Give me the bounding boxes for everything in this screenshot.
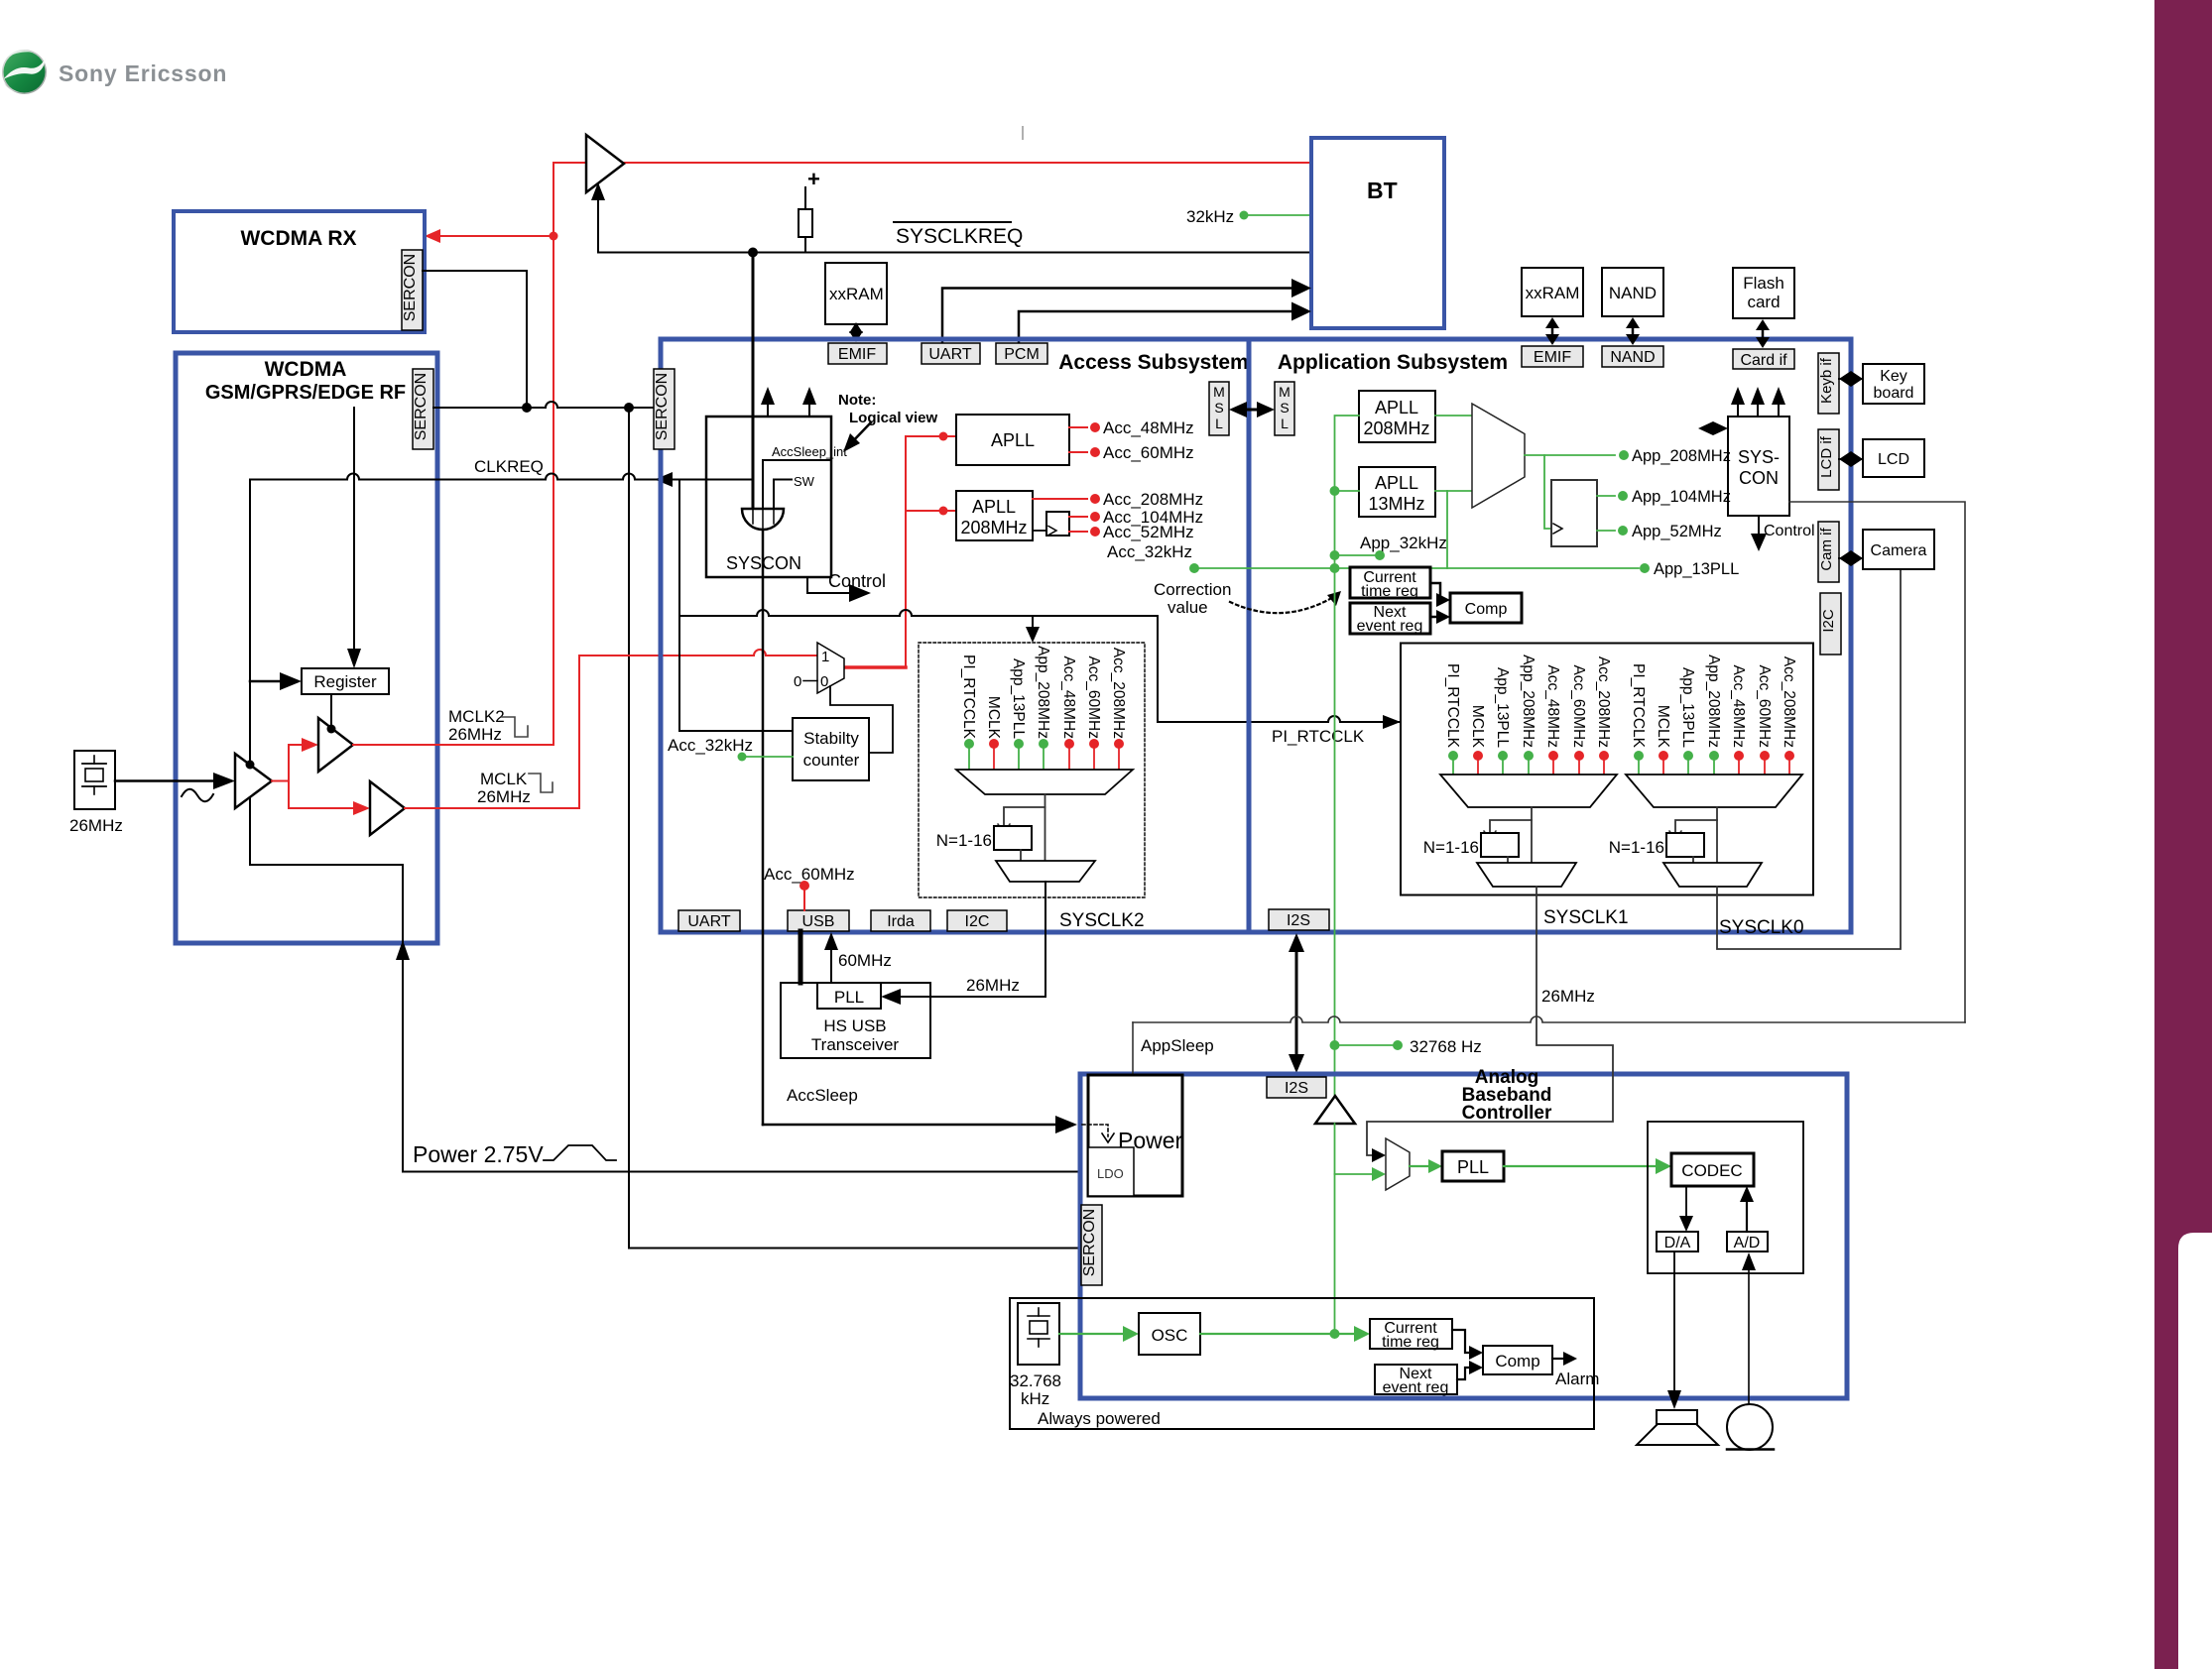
wire gate output down (AccSleep) <box>762 530 765 1125</box>
wire mux1 out <box>1531 807 1533 863</box>
SEC4: Application subsystem <box>1107 268 1965 1097</box>
svg-text:Acc_32kHz: Acc_32kHz <box>1107 542 1192 561</box>
divider FF (app) <box>1551 480 1597 546</box>
svg-text:Acc_208MHz: Acc_208MHz <box>1110 648 1127 739</box>
svg-text:SERCON: SERCON <box>654 373 671 440</box>
divider output stage <box>996 861 1095 882</box>
svg-text:Acc_48MHz: Acc_48MHz <box>1103 418 1194 437</box>
wire CLKREQ branch into stability counter <box>679 480 793 732</box>
block PLL (usb) <box>817 983 881 1009</box>
svg-text:APLL: APLL <box>1375 398 1418 417</box>
svg-text:xxRAM: xxRAM <box>829 285 884 303</box>
port SERCON (WCDMA RX) <box>402 250 423 330</box>
net App_208MHz <box>1525 454 1615 456</box>
block D/A <box>1657 1232 1698 1252</box>
svg-text:LCD if: LCD if <box>1818 435 1835 478</box>
block Access Subsystem <box>661 339 1249 932</box>
mux ABB clock <box>1386 1138 1410 1190</box>
wire current to comp <box>1452 1330 1469 1353</box>
maroon side bar <box>2154 0 2212 1669</box>
svg-text:PCM: PCM <box>1004 346 1040 363</box>
svg-text:SW: SW <box>794 474 815 489</box>
svg-text:App_208MHz: App_208MHz <box>1632 447 1731 465</box>
svg-text:BT: BT <box>1367 178 1398 203</box>
port EMIF (app) <box>1522 346 1583 367</box>
svg-text:MCLK: MCLK <box>1655 705 1671 749</box>
svg-text:PLL: PLL <box>1457 1157 1489 1177</box>
svg-text:Comp: Comp <box>1495 1352 1539 1371</box>
mux SYSCLK0 <box>1626 775 1802 807</box>
buffer A (xtal buffer) <box>235 754 272 808</box>
svg-text:Comp: Comp <box>1465 601 1508 618</box>
svg-text:N=1-16: N=1-16 <box>1609 838 1664 857</box>
wire SYSCLKREQ to BT <box>598 252 1309 254</box>
svg-text:Control: Control <box>828 571 886 591</box>
port Card if <box>1733 349 1794 369</box>
wire green 32k down to ABB <box>1334 568 1336 1097</box>
svg-text:0: 0 <box>794 673 801 690</box>
svg-text:M: M <box>1279 384 1290 400</box>
svg-text:208MHz: 208MHz <box>960 518 1027 537</box>
port UART (bottom) <box>678 910 740 931</box>
wire comp to alarm <box>1552 1358 1565 1360</box>
wire SYS-CON side link <box>1708 427 1720 430</box>
wire A/D to CODEC <box>1746 1198 1748 1232</box>
mux SYSCLK1 <box>1440 775 1617 807</box>
svg-text:MCLK2: MCLK2 <box>448 707 505 726</box>
svg-text:26MHz: 26MHz <box>69 816 123 835</box>
svg-text:EMIF: EMIF <box>1534 349 1571 366</box>
svg-text:D/A: D/A <box>1664 1235 1691 1252</box>
SEC1: top wires / BT <box>425 127 1444 745</box>
svg-text:26MHz: 26MHz <box>1541 987 1595 1006</box>
svg-text:I2C: I2C <box>965 913 990 930</box>
block audio frame <box>1648 1122 1803 1273</box>
net Acc_52MHz <box>1069 531 1087 533</box>
wire accsleep dashed into LDO <box>1082 1125 1108 1136</box>
svg-text:Sony Ericsson: Sony Ericsson <box>59 60 227 86</box>
svg-text:AccSleep: AccSleep <box>787 1086 858 1105</box>
svg-text:Always powered: Always powered <box>1038 1409 1161 1428</box>
port I2C (app right) <box>1820 593 1841 655</box>
block Camera <box>1863 530 1934 569</box>
wire branch into SYSCLK2 box <box>1032 616 1034 631</box>
svg-text:App_208MHz: App_208MHz <box>1520 655 1536 748</box>
svg-text:26MHz: 26MHz <box>966 976 1020 995</box>
wire mux out <box>1045 794 1046 861</box>
wire branch into divider FF <box>1544 455 1551 529</box>
wire PLL to CODEC <box>1504 1165 1659 1167</box>
block A/D <box>1727 1232 1768 1252</box>
wire keyb link <box>1839 371 1863 387</box>
wire SYSCON up arrows <box>767 400 769 417</box>
port UART (top) <box>922 343 980 364</box>
block Always powered <box>1010 1298 1594 1429</box>
divider output stage (sysclk1) <box>1477 863 1576 887</box>
svg-text:Acc_32kHz: Acc_32kHz <box>668 736 753 755</box>
wire into register from left <box>250 680 284 683</box>
block APLL 13MHz <box>1359 467 1435 517</box>
svg-text:0: 0 <box>820 673 828 690</box>
svg-text:PI_RTCCLK: PI_RTCCLK <box>1444 663 1461 749</box>
block HS USB Transceiver <box>781 983 930 1058</box>
port MSL (app side) <box>1275 382 1294 435</box>
svg-text:SYSCLKREQ: SYSCLKREQ <box>896 225 1023 248</box>
wire USB thick stem <box>799 931 803 983</box>
svg-text:event reg: event reg <box>1383 1379 1449 1396</box>
wire control bus to SYSCLK2 and PI_RTCCLK <box>679 610 1401 722</box>
net App_104MHz <box>1597 495 1615 497</box>
wire feedback via buffer <box>250 480 403 959</box>
svg-text:Acc_52MHz: Acc_52MHz <box>1103 523 1194 541</box>
net App_13PLL <box>1640 563 1650 573</box>
wire xxRAM-EMIF double arrow <box>855 329 858 335</box>
svg-text:HS USB: HS USB <box>823 1016 886 1035</box>
net Acc_48MHz <box>1069 426 1087 428</box>
svg-text:Acc_48MHz: Acc_48MHz <box>1730 664 1747 748</box>
svg-text:kHz: kHz <box>1021 1389 1049 1408</box>
svg-text:UART: UART <box>687 913 730 930</box>
svg-text:Correction: Correction <box>1154 580 1231 599</box>
svg-text:App_13PLL: App_13PLL <box>1494 667 1511 748</box>
svg-text:USB: USB <box>802 913 835 930</box>
svg-text:SERCON: SERCON <box>413 373 430 440</box>
block Current time reg (RTC) <box>1370 1319 1452 1349</box>
svg-text:App_32kHz: App_32kHz <box>1360 534 1447 552</box>
node junction SYSCLKREQ / SYSCON <box>748 248 758 258</box>
svg-text:Acc_48MHz: Acc_48MHz <box>1544 664 1561 748</box>
svg-text:LCD: LCD <box>1878 451 1909 468</box>
svg-text:Logical view: Logical view <box>849 410 938 426</box>
port Keyb if <box>1818 353 1839 414</box>
wire CLKREQ <box>250 474 753 480</box>
svg-text:32768 Hz: 32768 Hz <box>1410 1037 1482 1056</box>
crystal X2 32.768kHz <box>1018 1303 1059 1365</box>
wire sercon down to ABB <box>629 408 1080 1249</box>
block Comp <box>1450 593 1522 623</box>
block APLL <box>956 415 1069 465</box>
wire Control out of SYSCON <box>807 577 853 593</box>
svg-text:Transceiver: Transceiver <box>811 1035 900 1054</box>
svg-text:card: card <box>1747 293 1780 311</box>
divider FF <box>1046 512 1069 536</box>
mux sleep clock (2:1) <box>817 643 844 693</box>
svg-text:SYSCLK0: SYSCLK0 <box>1719 917 1804 938</box>
net Acc_104MHz <box>1069 516 1087 518</box>
svg-text:Controller: Controller <box>1462 1103 1552 1124</box>
svg-text:Acc_60MHz: Acc_60MHz <box>764 865 855 884</box>
svg-text:PLL: PLL <box>834 988 864 1007</box>
block LDO <box>1088 1147 1134 1196</box>
block SYSCON <box>706 417 831 577</box>
net App_52MHz <box>1597 530 1615 532</box>
svg-text:32.768: 32.768 <box>1010 1371 1061 1390</box>
block xxRAM (access) <box>825 263 887 324</box>
wire correction (dotted) <box>1230 596 1335 613</box>
port USB <box>788 910 849 931</box>
wire 60MHz up <box>830 945 832 983</box>
svg-text:App_13PLL: App_13PLL <box>1654 560 1739 578</box>
svg-text:Card if: Card if <box>1740 352 1787 369</box>
wire SYSCLK0 to camera <box>1717 569 1901 949</box>
svg-text:26MHz: 26MHz <box>477 787 531 806</box>
wire curr reg to comp <box>1430 583 1442 600</box>
wire APLL13 out to mux + branch <box>1435 490 1472 492</box>
svg-text:SYSCLK2: SYSCLK2 <box>1059 910 1145 931</box>
svg-text:Register: Register <box>313 672 377 691</box>
svg-text:LDO: LDO <box>1097 1166 1124 1181</box>
wire buffer A out (red) <box>272 780 289 782</box>
wire red trunk to APLLs <box>844 665 906 669</box>
wire crystal to buffer A <box>115 779 217 782</box>
SEC2: WCDMA boxes / left area <box>69 211 1080 1249</box>
svg-text:UART: UART <box>928 346 971 363</box>
svg-text:Flash: Flash <box>1743 274 1784 293</box>
resistor pull-up R1 <box>804 187 806 209</box>
svg-text:NAND: NAND <box>1610 349 1655 366</box>
wire mux0 out <box>1716 807 1718 863</box>
wire buffer enable from SYSCLKREQ <box>597 196 599 252</box>
mux SYSCLK0 inputs <box>1630 655 1797 749</box>
Sony Ericsson logo <box>2 50 227 94</box>
svg-text:M: M <box>1213 384 1225 400</box>
svg-text:App_13PLL: App_13PLL <box>1010 658 1027 739</box>
svg-text:32kHz: 32kHz <box>1186 207 1234 226</box>
speaker <box>1657 1410 1697 1424</box>
wire AccSleep to Power <box>763 1124 1060 1127</box>
port I2C <box>947 910 1007 931</box>
wire PCM to BT <box>1019 311 1295 343</box>
port NAND (app) <box>1602 346 1663 367</box>
buffer 32k (triangle) <box>1315 1096 1355 1124</box>
svg-text:event reg: event reg <box>1357 618 1423 635</box>
svg-text:Key: Key <box>1880 368 1907 385</box>
svg-text:SYSCLK1: SYSCLK1 <box>1543 907 1629 928</box>
svg-text:Acc_208MHz: Acc_208MHz <box>1103 490 1203 509</box>
block Current time reg <box>1350 567 1430 598</box>
wire APLL208 out to mux <box>1435 415 1472 417</box>
svg-text:OSC: OSC <box>1152 1326 1188 1345</box>
logo ball <box>2 50 47 94</box>
buffer U_top (clock buffer to BT) <box>586 135 624 192</box>
port Irda <box>871 910 930 931</box>
divider block SYSCLK2 (dashed) <box>919 643 1145 897</box>
svg-text:xxRAM: xxRAM <box>1526 284 1580 302</box>
svg-text:Camera: Camera <box>1871 542 1927 559</box>
wire AppSleep run <box>1133 1016 1965 1022</box>
port SERCON (GSM RF) <box>413 369 433 449</box>
wire 32kHz to BT <box>1244 214 1311 216</box>
buffer MCLK <box>370 781 405 835</box>
svg-text:PI_RTCCLK: PI_RTCCLK <box>1272 727 1365 746</box>
wire Flash card link <box>1762 326 1765 341</box>
SEC3: Access subsystem <box>654 253 1401 1134</box>
svg-text:Stabilty: Stabilty <box>803 729 859 748</box>
svg-text:App_104MHz: App_104MHz <box>1632 488 1731 506</box>
svg-text:S: S <box>1280 400 1289 416</box>
svg-text:Keyb if: Keyb if <box>1818 357 1835 404</box>
divider output stage (sysclk0) <box>1663 863 1762 887</box>
net Acc_208MHz <box>1033 498 1087 500</box>
wire cam link <box>1839 550 1863 566</box>
port SERCON (ABB) <box>1081 1205 1102 1285</box>
port PCM <box>996 343 1047 364</box>
svg-text:App_52MHz: App_52MHz <box>1632 523 1722 540</box>
wire MCLK2 red net: top run to BT <box>553 163 1311 745</box>
port I2S (ABB) <box>1267 1077 1326 1098</box>
node junction (down to ABB sercon) <box>624 403 634 413</box>
block divider N=1-16 (sysclk0) <box>1666 833 1704 857</box>
svg-text:Note:: Note: <box>838 392 876 409</box>
block Stability counter <box>793 718 869 780</box>
stray mark <box>1022 127 1024 139</box>
svg-text:MCLK: MCLK <box>985 696 1002 740</box>
wire green feed to APLLs <box>1335 416 1360 568</box>
svg-text:NAND: NAND <box>1609 284 1657 302</box>
block NAND (top) <box>1602 268 1663 316</box>
svg-text:60MHz: 60MHz <box>838 951 892 970</box>
svg-text:App_208MHz: App_208MHz <box>1705 655 1722 748</box>
svg-text:Acc_60MHz: Acc_60MHz <box>1085 656 1102 739</box>
wire next to comp <box>1457 1368 1469 1379</box>
svg-text:I2C: I2C <box>1820 609 1837 633</box>
block Register <box>302 668 389 694</box>
svg-text:A/D: A/D <box>1734 1235 1761 1252</box>
svg-text:WCDMA: WCDMA <box>265 358 347 381</box>
node junction (RX sercon) <box>522 403 532 413</box>
svg-text:EMIF: EMIF <box>838 346 876 363</box>
port LCD if <box>1818 429 1839 490</box>
svg-text:+: + <box>807 167 820 191</box>
block Application Subsystem <box>1249 339 1851 932</box>
wire I2S link down to ABB <box>1295 938 1298 1068</box>
block divider N=1-16 <box>994 826 1032 850</box>
wire NAND link <box>1632 324 1635 338</box>
wire Power 2.75V rail <box>403 952 1080 1172</box>
wire MCLK2 out (red, to x=558 riser in sec1) <box>353 744 553 746</box>
svg-text:Acc_48MHz: Acc_48MHz <box>1060 656 1077 739</box>
block divider N=1-16 (sysclk1) <box>1481 833 1519 857</box>
wire CODEC to D/A <box>1685 1186 1687 1220</box>
svg-text:App_13PLL: App_13PLL <box>1679 667 1696 748</box>
wire SYS-CON up arrows <box>1737 400 1739 417</box>
microphone <box>1727 1404 1773 1450</box>
svg-text:Power 2.75V: Power 2.75V <box>413 1141 544 1167</box>
wire register select <box>353 408 355 653</box>
wire SYS-CON control to ABB <box>1789 502 1965 1022</box>
mux SYSCLK1 inputs <box>1444 655 1612 749</box>
gate (wired-AND) <box>742 509 784 530</box>
block Flash card <box>1733 268 1794 318</box>
svg-text:GSM/GPRS/EDGE RF: GSM/GPRS/EDGE RF <box>205 382 406 404</box>
crystal X1 26MHz <box>74 751 115 809</box>
svg-text:APLL: APLL <box>1375 473 1418 493</box>
block Analog Baseband Controller <box>1080 1074 1847 1398</box>
wire crystal to OSC <box>1059 1333 1127 1335</box>
block CODEC <box>1671 1153 1754 1186</box>
block Key board <box>1863 364 1924 404</box>
svg-text:App_208MHz: App_208MHz <box>1035 646 1051 739</box>
svg-text:I2S: I2S <box>1285 1080 1308 1097</box>
node red junction at WCDMA RX branch <box>550 232 558 241</box>
svg-text:Cam if: Cam if <box>1818 528 1835 571</box>
wire mic to A/D <box>1748 1267 1750 1404</box>
port Cam if <box>1818 522 1839 582</box>
svg-text:AppSleep: AppSleep <box>1141 1036 1214 1055</box>
svg-text:Acc_60MHz: Acc_60MHz <box>1570 664 1587 748</box>
block LCD <box>1863 439 1924 477</box>
wire SERCON bus GSM to Access <box>433 402 654 408</box>
svg-text:Alarm: Alarm <box>1555 1370 1599 1388</box>
wire 26MHz into ABB mux <box>1367 887 1613 1155</box>
mux SYSCLK2 <box>956 770 1133 794</box>
svg-text:APLL: APLL <box>991 430 1035 450</box>
svg-text:MCLK: MCLK <box>1469 705 1486 749</box>
svg-text:time reg: time reg <box>1361 583 1418 600</box>
svg-text:N=1-16: N=1-16 <box>1423 838 1479 857</box>
block WCDMA GSM/GPRS/EDGE RF <box>176 353 437 943</box>
block APLL 208MHz (app) <box>1359 391 1435 442</box>
sine symbol <box>182 789 213 802</box>
wire SERCON RX to bus <box>423 271 527 408</box>
wire SYSCLK2 out to PLL <box>899 882 1045 997</box>
wire UART to BT <box>942 289 1295 344</box>
SEC5: ABB + bottom <box>1010 887 1965 1450</box>
svg-text:time reg: time reg <box>1382 1334 1439 1351</box>
svg-text:Acc_60MHz: Acc_60MHz <box>1756 664 1773 748</box>
wire red branch to WCDMA RX <box>436 235 553 237</box>
block OSC <box>1139 1313 1200 1355</box>
svg-text:L: L <box>1215 416 1223 431</box>
svg-text:Acc_208MHz: Acc_208MHz <box>1781 656 1797 748</box>
svg-text:CON: CON <box>1739 468 1779 488</box>
block Power <box>1088 1075 1182 1196</box>
svg-text:26MHz: 26MHz <box>448 725 502 744</box>
svg-text:Control: Control <box>1764 523 1815 539</box>
block Next event reg <box>1350 603 1430 634</box>
svg-text:counter: counter <box>803 751 860 770</box>
block SYSCLK1/SYSCLK0 dividers <box>1401 644 1813 895</box>
svg-text:board: board <box>1874 385 1914 402</box>
port EMIF <box>828 343 887 364</box>
svg-text:Acc_60MHz: Acc_60MHz <box>1103 443 1194 462</box>
mux app clocks <box>1472 404 1525 508</box>
svg-text:S: S <box>1214 400 1223 416</box>
wire mux to PLL (green arrow) <box>1410 1165 1434 1167</box>
buffer MCLK2 <box>318 718 353 772</box>
wire lcd link <box>1839 451 1863 467</box>
svg-text:MCLK: MCLK <box>480 770 528 788</box>
svg-text:SYS-: SYS- <box>1738 447 1780 467</box>
svg-text:208MHz: 208MHz <box>1363 418 1429 438</box>
svg-text:Irda: Irda <box>887 913 915 930</box>
wire SYSCLKREQ down into gate <box>752 253 755 510</box>
svg-text:SERCON: SERCON <box>1081 1209 1098 1276</box>
block PLL (ABB) <box>1442 1151 1504 1181</box>
svg-text:Acc_208MHz: Acc_208MHz <box>1595 656 1612 748</box>
svg-text:13MHz: 13MHz <box>1368 494 1424 514</box>
block WCDMA RX <box>174 211 425 332</box>
wire Control down <box>1758 516 1760 537</box>
svg-text:SERCON: SERCON <box>402 254 419 321</box>
svg-text:AccSleep_int: AccSleep_int <box>772 444 847 459</box>
net Acc_60MHz <box>1069 451 1087 453</box>
net 32768 Hz <box>1330 1040 1340 1050</box>
block BT <box>1311 138 1444 328</box>
wire MSL link <box>1243 409 1261 412</box>
mux SYSCLK2 inputs <box>960 646 1127 740</box>
wire D/A to speaker <box>1673 1252 1675 1394</box>
